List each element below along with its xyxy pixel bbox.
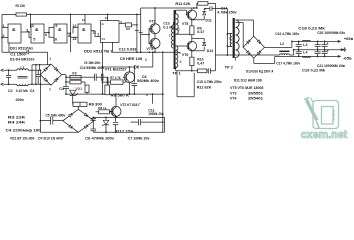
svg-text:2: 2	[178, 27, 180, 31]
label R4 24K	[8, 121, 26, 125]
wire vert 163	[162, 51, 164, 132]
resistor R1	[16, 13, 27, 16]
svg-text:C3: C3	[30, 89, 35, 93]
winding TP2 primary	[227, 34, 232, 47]
pin 13	[72, 37, 76, 41]
svg-text:VT3: VT3	[149, 19, 156, 23]
label C5 1Mk 400v	[45, 113, 66, 117]
label D13-D16	[246, 69, 274, 73]
transistor VT3	[149, 24, 160, 34]
label winding 2 red	[178, 27, 180, 31]
label C16 4.7Mk 160v	[275, 32, 300, 36]
label R1 22K	[16, 4, 26, 8]
capacitor C7	[113, 117, 119, 132]
winding TP1-2	[176, 10, 192, 34]
svg-text:R7 2.7k: R7 2.7k	[110, 76, 121, 80]
resistor R4 vert	[85, 85, 89, 94]
label C3	[30, 89, 35, 93]
wire right edge block	[164, 117, 166, 132]
capacitor C6	[91, 117, 97, 133]
label VT6	[182, 53, 189, 57]
svg-text:D13-D16 КЦ 2997 А: D13-D16 КЦ 2997 А	[246, 69, 274, 73]
label C12 0.033	[119, 48, 137, 52]
pin 8	[68, 34, 70, 38]
svg-text:1: 1	[97, 33, 99, 37]
pin 9	[55, 24, 57, 28]
pin 3	[26, 29, 28, 33]
svg-text:R3 22K: R3 22K	[8, 115, 26, 119]
wire HVminus bus 94	[66, 93, 163, 95]
svg-text:3: 3	[26, 29, 28, 33]
svg-text:C1: C1	[102, 37, 106, 41]
svg-text:2: 2	[49, 87, 51, 91]
inductor L1	[17, 69, 29, 86]
wire gate2 out to gate3	[44, 28, 54, 38]
fuse F3	[66, 75, 95, 79]
svg-text:8: 8	[68, 34, 70, 38]
capacitor C10 series	[96, 74, 108, 95]
label R9	[197, 26, 204, 34]
svg-text:&: &	[58, 27, 62, 33]
winding TP1-3	[176, 46, 186, 67]
svg-text:L2: L2	[280, 42, 284, 46]
capacitor C18 C19	[315, 41, 321, 56]
inductor L4	[302, 50, 310, 57]
svg-text:D11 D12 HER 108: D11 D12 HER 108	[234, 79, 262, 83]
wire sec top	[235, 20, 253, 36]
label D11 D12 HER 108	[234, 79, 262, 83]
svg-text:0.47: 0.47	[197, 30, 204, 34]
wire C14 top	[215, 3, 217, 8]
wire VT1 collector	[128, 67, 130, 72]
resistor R10	[190, 57, 194, 65]
label R6 560 K	[111, 94, 130, 98]
svg-text:+: +	[327, 49, 329, 53]
wire left drop	[40, 75, 42, 133]
label R8b	[98, 106, 106, 110]
svg-text:+65в: +65в	[344, 37, 354, 41]
wire bridge right out	[62, 75, 67, 87]
label D7-D10 1N4007	[38, 136, 63, 140]
svg-text:G: G	[102, 22, 104, 26]
transistor VT1	[123, 72, 135, 83]
svg-text:D11: D11	[205, 18, 211, 22]
label VT4 2N5401	[230, 96, 263, 100]
svg-text:C9 HER 108: C9 HER 108	[120, 57, 142, 61]
svg-text:3: 3	[145, 58, 147, 62]
svg-text:C4 2200мкф 100: C4 2200мкф 100	[6, 129, 41, 133]
svg-text:1: 1	[3, 24, 5, 28]
wire bottom bus	[93, 131, 164, 133]
svg-text:C17 4,7Mk 160v: C17 4,7Mk 160v	[276, 62, 301, 66]
gate DD1.2	[31, 24, 44, 43]
pin 10	[53, 37, 57, 41]
wire snubber up	[215, 9, 217, 71]
svg-text:VT3: VT3	[230, 91, 236, 95]
wire TP1-2 to VT5 base	[176, 10, 187, 15]
svg-text:cxem.net: cxem.net	[301, 129, 348, 141]
wire AC top rail	[5, 69, 40, 71]
node 2 red	[49, 87, 51, 91]
label VT5	[182, 22, 189, 26]
arrow minus65	[338, 55, 353, 61]
zener D17	[102, 117, 108, 132]
svg-text:14: 14	[82, 18, 86, 22]
label VT1 BU2527	[105, 67, 127, 71]
wire lower bus 52	[113, 51, 181, 53]
label C13 0.1 Mk	[163, 21, 174, 29]
wire gate4 out to DD2	[91, 31, 101, 37]
pin 4	[32, 24, 34, 28]
wire VT5 collector	[191, 8, 193, 10]
svg-text:C7 10Mk 20v: C7 10Mk 20v	[128, 136, 151, 140]
wire VT3 collector	[154, 8, 156, 24]
capacitor C16 C17	[296, 41, 302, 56]
wire VT3-VT4	[154, 34, 156, 39]
resistor R8b	[96, 110, 113, 114]
svg-text:4: 4	[32, 24, 34, 28]
svg-text:C2: C2	[8, 89, 13, 93]
svg-text:L3: L3	[303, 43, 307, 47]
label 400v	[16, 98, 25, 102]
wire bridge2 bottom	[40, 131, 78, 133]
node 4 red	[146, 93, 148, 97]
capacitor C20 C21	[322, 41, 329, 56]
label VT5 VT6 MJE13008	[230, 86, 263, 90]
transistor VT2	[110, 106, 121, 116]
svg-text:C18 0,22 Mk: C18 0,22 Mk	[298, 26, 326, 30]
pin 14 gate	[82, 18, 86, 22]
label C21 10000Mk 63v	[317, 64, 346, 68]
svg-text:10: 10	[53, 37, 57, 41]
svg-text:3: 3	[180, 60, 182, 64]
wire VT2 emitter	[115, 116, 117, 118]
label winding 3 red	[180, 60, 182, 64]
label C8	[142, 75, 147, 79]
resistor R2b	[66, 80, 85, 85]
label C14	[221, 7, 228, 11]
capacitor C1	[27, 50, 29, 54]
arrow ground	[341, 47, 347, 51]
wire out bus 117	[93, 117, 164, 119]
svg-text:R2: R2	[126, 27, 130, 31]
label TP1	[172, 71, 180, 75]
svg-text:5: 5	[33, 38, 35, 42]
capacitor C14	[204, 6, 215, 11]
wire bridge2 left C5	[40, 120, 63, 122]
watermark cxem.net	[301, 98, 348, 142]
label 560Mk 400v	[137, 79, 160, 83]
label C2	[8, 89, 13, 93]
wire TP1-3 bottom	[175, 67, 198, 71]
svg-text:&: &	[35, 27, 39, 33]
svg-text:4: 4	[146, 93, 148, 97]
pin 1	[3, 24, 5, 28]
svg-text:DD1 К511ЛА1: DD1 К511ЛА1	[10, 46, 33, 50]
svg-text:VT4: VT4	[230, 96, 236, 100]
wire VT6 emitter	[191, 50, 193, 57]
svg-text:C19 0,22 Mk: C19 0,22 Mk	[302, 68, 326, 72]
capacitor C11	[131, 119, 164, 125]
svg-text:VT5 VT6 MJE 13008: VT5 VT6 MJE 13008	[230, 86, 263, 90]
svg-text:+: +	[327, 42, 329, 46]
svg-text:C15 4.7Mk 250v: C15 4.7Mk 250v	[197, 80, 223, 84]
diode D11	[192, 9, 206, 20]
label 0.22 Mk	[16, 89, 29, 93]
svg-text:L4: L4	[303, 50, 307, 54]
transformer TP2 core	[233, 18, 235, 58]
IC DD2	[101, 21, 120, 43]
svg-text:0.22 Mk: 0.22 Mk	[16, 89, 29, 93]
svg-text:L1: L1	[20, 66, 24, 70]
svg-text:VT1 BU2527: VT1 BU2527	[105, 67, 127, 71]
wire R1 to pin4	[30, 14, 32, 28]
resistor R11	[196, 2, 216, 9]
svg-text:2N5401: 2N5401	[248, 96, 263, 100]
rectifier bridge D13-D16	[243, 36, 264, 58]
label VT2 KT816	[120, 103, 141, 107]
label TP2 w2	[229, 36, 231, 40]
label C9 HER 108	[120, 57, 142, 61]
resistor R9	[190, 26, 194, 35]
wire R9 to VT6	[191, 35, 193, 42]
svg-text:DD2 К511 ТВ 1: DD2 К511 ТВ 1	[84, 49, 113, 53]
capacitor C15	[207, 68, 216, 73]
svg-text:0,47: 0,47	[197, 61, 204, 65]
wire sec bottom	[234, 58, 236, 61]
label C10 550Mk 400v	[80, 66, 105, 70]
wire top rail net osc	[2, 14, 141, 52]
wire TP2 primary feed	[227, 9, 229, 56]
wire bus riser	[47, 52, 49, 65]
transistor VT4	[149, 38, 160, 48]
wire DC feed 64.8	[32, 64, 51, 66]
svg-text:VT6: VT6	[182, 53, 189, 57]
label R10	[197, 58, 204, 66]
winding TP2 secondary	[235, 20, 239, 58]
gate DD1.4	[78, 24, 91, 43]
pin 1 DD2	[97, 33, 99, 37]
inductor L3	[302, 40, 310, 47]
pin 11	[92, 31, 96, 35]
svg-text:VT4: VT4	[146, 47, 153, 51]
wire rail plus	[292, 41, 338, 43]
capacitor C13	[135, 31, 143, 33]
svg-text:-65в: -65в	[343, 57, 353, 61]
wire gate4 pin14	[84, 14, 86, 24]
wire drop x36	[35, 65, 37, 85]
label C15 4.7Mk 250v	[197, 80, 223, 84]
label F3	[72, 72, 76, 76]
svg-text:R12 62K: R12 62K	[197, 85, 212, 89]
wire R2 right	[132, 24, 137, 26]
wire bus to TP1	[179, 52, 181, 54]
wire sec mid	[235, 23, 243, 48]
inductor L2	[279, 49, 294, 55]
wire drop x40	[40, 65, 42, 75]
transformer TP1 core	[174, 10, 176, 69]
rectifier bridge D7-D10	[63, 109, 94, 132]
wire feedback pin8	[70, 14, 72, 53]
thyristor VD1	[70, 90, 78, 101]
svg-text:VD1: VD1	[75, 87, 82, 91]
label R12 62K	[197, 85, 212, 89]
label VD1	[75, 87, 82, 91]
label D12	[207, 49, 214, 53]
pin 5	[33, 38, 35, 42]
label C19 0.22 Mk	[302, 68, 326, 72]
wire DD2 out	[119, 20, 125, 24]
wire C11 stub	[152, 93, 154, 104]
label 100Mk 20v	[148, 112, 164, 116]
label L2	[280, 42, 284, 46]
wire bridge2 right	[92, 120, 94, 122]
label L1	[20, 66, 24, 70]
winding TP1-1	[171, 22, 173, 48]
svg-text:ТР 2: ТР 2	[225, 65, 233, 69]
wire R10 down	[191, 66, 193, 72]
label R3 22K	[8, 115, 26, 119]
svg-text:ТР 1: ТР 1	[172, 71, 180, 75]
svg-text:12: 12	[72, 24, 76, 28]
gate DD1.3	[54, 24, 67, 43]
resistor R6 560K	[105, 77, 110, 95]
pin 12	[72, 24, 76, 28]
wire rail mid	[294, 49, 341, 51]
svg-text:C6 470Mk 100v: C6 470Mk 100v	[85, 136, 115, 140]
wire bridge2 top	[77, 106, 79, 109]
capacitor C8	[132, 67, 138, 94]
svg-text:C21 10000Mk 63в: C21 10000Mk 63в	[317, 64, 346, 68]
pin 2	[3, 34, 5, 38]
label VT3	[149, 19, 156, 23]
svg-text:2N5551: 2N5551	[248, 91, 263, 95]
wire VT5 emitter	[191, 19, 193, 26]
label R7 2.7k	[110, 76, 121, 80]
label TP2	[225, 65, 233, 69]
wire bridge3 plus	[265, 41, 293, 48]
terminal AC bottom	[1, 83, 6, 86]
svg-text:1: 1	[49, 57, 51, 61]
wire gate1 out to gate2	[21, 28, 31, 38]
label VT4	[146, 47, 153, 51]
resistor R12	[198, 69, 207, 73]
label C4 2200mkf 100	[6, 129, 41, 133]
gate DD1.1	[8, 24, 21, 43]
svg-text:9: 9	[55, 24, 57, 28]
svg-text:R6 560 K: R6 560 K	[111, 94, 130, 98]
svg-text:D1-D4 BR1010: D1-D4 BR1010	[10, 57, 35, 61]
resistor R2	[125, 23, 131, 31]
resistor R7	[103, 80, 127, 84]
svg-text:R8 1к: R8 1к	[98, 106, 106, 110]
wire C14 to TP2	[216, 8, 228, 10]
wire VT1 emitter	[128, 83, 130, 95]
wire vert C13 right	[140, 8, 142, 53]
label D1-D4 BR1010	[10, 57, 35, 61]
svg-text:400v: 400v	[16, 98, 25, 102]
svg-text:VT2 КТ 816 Г: VT2 КТ 816 Г	[120, 103, 141, 107]
wire mid 55	[216, 54, 280, 56]
svg-text:VT5: VT5	[182, 22, 189, 26]
svg-text:&: &	[12, 27, 16, 33]
svg-text:D12: D12	[207, 49, 214, 53]
svg-text:D17 15в: D17 15в	[116, 130, 134, 134]
arrow plus65	[338, 37, 354, 43]
svg-text:C12 0.033: C12 0.033	[119, 48, 137, 52]
wire gate1 inputs	[1, 28, 8, 39]
capacitor C5	[51, 117, 53, 125]
wire DD2 bottom to mid	[112, 42, 114, 52]
node 3 red	[145, 58, 147, 62]
svg-text:R1 22K: R1 22K	[16, 4, 26, 8]
wire AC bottom rail	[5, 83, 51, 85]
wire bottom bus osc	[2, 43, 48, 52]
svg-text:1: 1	[169, 34, 171, 38]
svg-text:560Mk 400v: 560Mk 400v	[137, 79, 160, 83]
wire gate3 out to gate4	[67, 28, 78, 38]
label D11	[205, 18, 211, 22]
terminal AC top	[1, 69, 6, 72]
wire vert C13 left	[136, 14, 138, 54]
label 4.7Mk 250v	[217, 10, 237, 14]
label C11	[148, 108, 154, 112]
label R11 62K	[175, 2, 190, 6]
svg-text:R11 62K: R11 62K	[175, 2, 190, 6]
wire drop x33	[31, 65, 33, 85]
capacitor C9 series	[95, 74, 97, 81]
wire rail minus	[275, 56, 338, 58]
label C9 1Mk 400v	[84, 61, 101, 65]
svg-text:C5 1Mk 400v: C5 1Mk 400v	[45, 113, 66, 117]
wire D9 up	[152, 51, 154, 67]
wire VD1 row	[72, 101, 74, 104]
svg-text:2: 2	[3, 34, 5, 38]
label C4	[59, 87, 64, 91]
capacitor C4	[63, 87, 69, 95]
node 1 red	[49, 57, 52, 66]
svg-text:F3: F3	[72, 72, 76, 76]
transistor VT5	[186, 10, 197, 20]
label C17 4.7Mk 160v	[276, 62, 301, 66]
svg-text:R4 24K: R4 24K	[8, 121, 26, 125]
svg-text:&: &	[82, 27, 86, 33]
svg-text:C16 4,7Mk 160v: C16 4,7Mk 160v	[275, 32, 300, 36]
pin 6	[45, 33, 47, 37]
label D17 15v	[116, 130, 134, 134]
svg-text:100Mk 20в: 100Mk 20в	[148, 112, 164, 116]
label winding 1	[169, 34, 171, 38]
label DD1 K511LA1	[10, 46, 33, 50]
svg-text:VD1 ВТ 151-800: VD1 ВТ 151-800	[10, 136, 34, 140]
wire VT4 emitter	[154, 48, 156, 53]
label C1 1500	[10, 53, 25, 57]
diode D12	[192, 39, 206, 51]
label VT3 2N5551	[230, 91, 263, 95]
svg-text:11: 11	[92, 31, 96, 35]
transistor VT6	[186, 41, 197, 51]
wire vert 102	[102, 42, 104, 94]
pin 14 DD2	[105, 14, 109, 21]
svg-text:C9 1Mk 400v: C9 1Mk 400v	[84, 61, 101, 65]
svg-text:C1 1500: C1 1500	[10, 53, 25, 57]
wire feedback loop	[177, 71, 194, 97]
svg-text:6: 6	[45, 33, 47, 37]
wire bridge3 minus	[254, 56, 275, 63]
diode D9 HER108	[103, 65, 153, 69]
wire VT2 collector	[115, 94, 117, 106]
resistor R8 300	[73, 102, 87, 106]
